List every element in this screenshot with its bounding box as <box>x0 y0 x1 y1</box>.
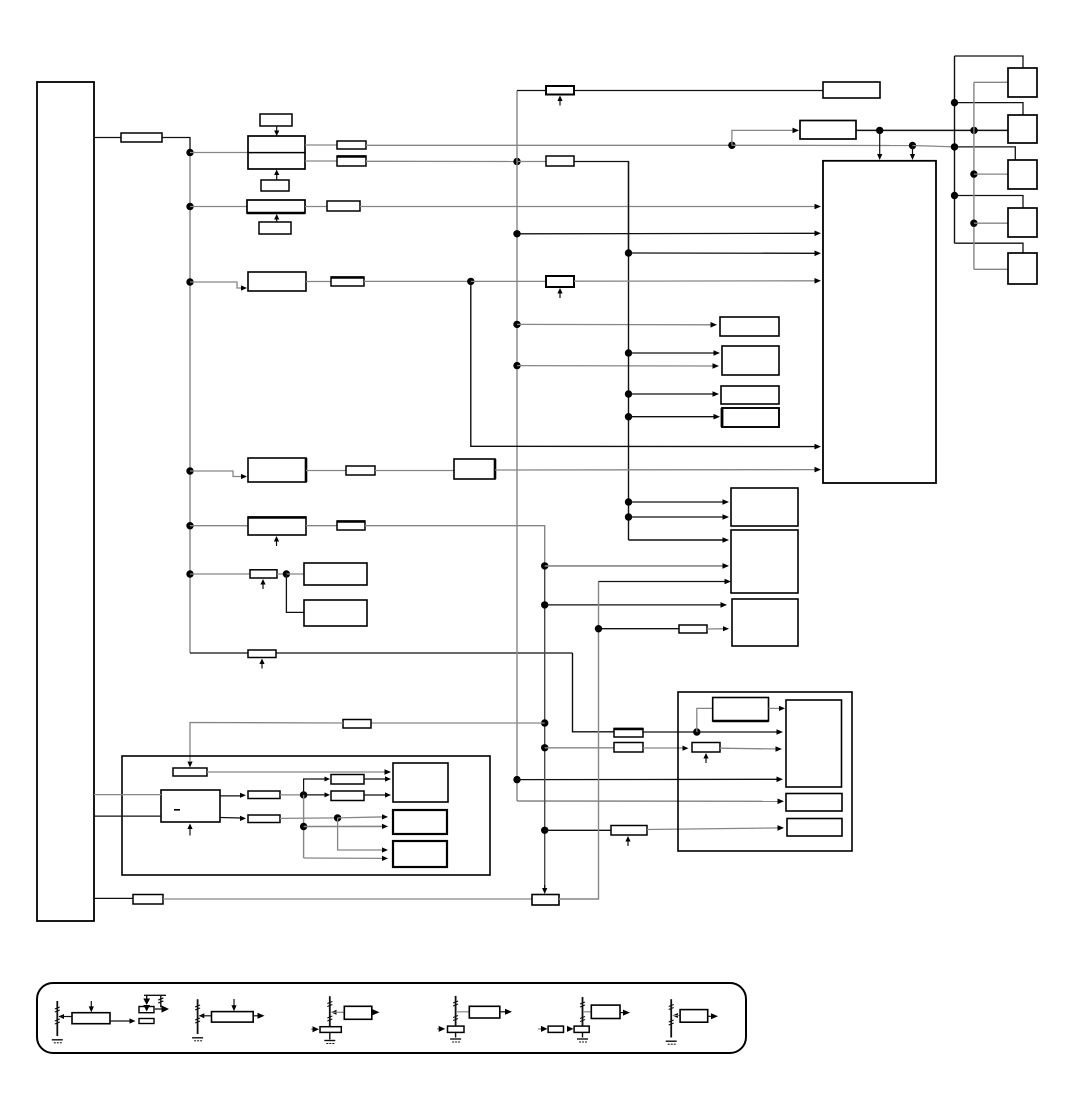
wire R8 to BB in4 <box>574 280 817 282</box>
testpoint R12 <box>703 753 708 763</box>
legend2 arrow into bus <box>199 1013 205 1018</box>
legend5 bus through rect <box>582 1032 584 1037</box>
wire v517 to box I in3 <box>517 778 779 780</box>
wire R19 to RS <box>163 898 532 900</box>
wire v517 to BB in2 <box>517 232 817 235</box>
legend5 rect2 <box>574 1026 589 1032</box>
wire R16 to n696 <box>643 731 697 733</box>
wire R11 to R12 <box>643 747 685 749</box>
junction n696 <box>693 728 700 735</box>
testpoint R6 <box>557 96 562 106</box>
legend1 out wire <box>110 1020 131 1022</box>
wire v628 to box C <box>629 393 716 395</box>
block D <box>722 408 779 427</box>
legend2 bus ticks <box>195 1005 200 1023</box>
resistor R3 <box>337 156 366 166</box>
wire B8 to BB in6 <box>495 469 817 471</box>
block U3 (wide regulator) <box>247 200 305 213</box>
block U4 <box>248 272 306 291</box>
wire U6 to R10 <box>306 525 337 527</box>
junction v545-b <box>541 601 548 608</box>
wire R18 left segment <box>190 723 343 762</box>
wire n731 to n912 <box>732 144 913 146</box>
wire V1 to block U5 (jog) <box>190 471 244 477</box>
junction V1-e <box>186 522 193 529</box>
bus V974 (grey) <box>973 82 975 269</box>
connector S5 <box>1008 253 1037 284</box>
block E <box>731 488 798 526</box>
block G <box>732 599 798 646</box>
thick right edge B8 <box>494 459 497 479</box>
wire n337 down to box Q in1 <box>338 818 384 850</box>
wire n470 down and to BB in5 <box>471 281 817 446</box>
wire n696 to box I in1 <box>697 731 779 733</box>
legend6 out arrow <box>711 1013 718 1019</box>
legend4 in arrow <box>437 1026 445 1032</box>
arrow into RN <box>325 792 331 797</box>
bus n303 down <box>303 795 305 858</box>
resistor R16 <box>614 729 643 738</box>
wire U4 to R7 <box>306 281 331 283</box>
arrow into TR2 <box>793 128 800 134</box>
legend6 bus ticks <box>669 1005 674 1026</box>
wire V517 top to R6 <box>517 90 546 92</box>
junction v517-a <box>513 158 520 165</box>
arrow into box C <box>713 391 720 397</box>
testpoint U6 <box>274 536 279 546</box>
legend1 bus ticks <box>55 1007 60 1024</box>
legend1 tee drop1 <box>143 995 150 1011</box>
block P <box>393 810 447 834</box>
thick bottom edge U3 <box>247 212 305 215</box>
thick top edge R3 <box>337 155 366 157</box>
bus V545 <box>544 566 546 890</box>
thick top edge U6 <box>248 516 306 519</box>
legend5 bus ticks <box>580 1002 585 1022</box>
block U6 <box>248 517 306 535</box>
block B8 <box>454 459 495 479</box>
junction v628-e <box>625 498 632 505</box>
wire R9 to B8 <box>375 470 454 472</box>
wire R15 run down V572 <box>573 653 615 732</box>
arrow into box T <box>778 799 785 805</box>
junction V1-c <box>186 278 193 285</box>
wire V517 to R4 <box>517 161 546 163</box>
legend1 tee bar <box>144 994 166 996</box>
junction n337 <box>334 814 341 821</box>
connector S2 <box>1008 115 1037 143</box>
legend1 small rect low <box>139 1019 154 1024</box>
legend3 out wire <box>372 1011 374 1013</box>
legend4 out arrow <box>505 1009 512 1015</box>
block U5 <box>248 458 306 482</box>
wire n337 to box P in1 <box>338 817 384 818</box>
wire n303 up to RM <box>304 779 326 795</box>
wire v954 to S3 top <box>955 147 1016 160</box>
junction v517-c <box>513 321 520 328</box>
fuse F1 <box>121 133 162 142</box>
legend1 ground <box>52 1040 63 1043</box>
legend3 low rect <box>320 1027 341 1033</box>
arrow into box P in2 <box>382 824 388 829</box>
block B11 <box>304 600 367 626</box>
arrow into BB in4 <box>815 278 822 284</box>
arrow C3 into U3 <box>274 214 279 222</box>
wire n303 corner to box Q in2 <box>304 857 384 859</box>
container CL (power stage group) <box>122 756 490 875</box>
junction V1-a <box>186 149 193 156</box>
arrow into RL <box>240 793 246 798</box>
resistor R9 <box>346 466 375 475</box>
resistor R17 <box>173 768 207 776</box>
arrow into box I in1 <box>777 729 784 735</box>
arrow into box A <box>711 322 718 328</box>
arrow into BB in1 <box>815 204 822 210</box>
legend5 box <box>591 1005 620 1018</box>
resistor RN <box>331 791 364 801</box>
block J (output filter) <box>393 763 448 802</box>
junction v545-d <box>541 744 548 751</box>
legend5 rect1 <box>548 1026 563 1032</box>
arrow into BB in6 <box>815 467 822 473</box>
legend5 wire bus to box <box>583 1011 591 1013</box>
wire RO to n337 <box>280 817 338 820</box>
wire R5 to BB <box>360 206 817 208</box>
block TR2 <box>800 121 856 140</box>
junction n470 <box>467 278 474 285</box>
legend3 arrow into bus <box>331 1010 337 1015</box>
wire v974 to S3 left <box>974 173 1008 175</box>
legend1 box <box>72 1013 110 1024</box>
wire n470 to R8 <box>471 280 546 282</box>
thick bottom edge H <box>713 720 769 723</box>
testpoint R13 <box>625 836 630 846</box>
block Q <box>393 841 447 867</box>
legend4 low rect <box>448 1026 465 1032</box>
legend2 down arrow <box>231 999 236 1011</box>
legend3 bus <box>329 996 331 1026</box>
arrow n879 into BB top <box>877 130 882 160</box>
wire U2 out2 <box>305 160 337 162</box>
legend4 bus ticks <box>453 1001 458 1021</box>
legend1 bus <box>56 1001 58 1036</box>
junction v954-c <box>951 192 958 199</box>
resistor R5 <box>327 201 360 211</box>
junction v545-a <box>541 562 548 569</box>
legend1 rect high out arrow <box>155 1005 169 1012</box>
legend3 wire bus to box <box>332 1011 345 1013</box>
wire v517 to box A <box>517 323 713 325</box>
legend2 ground <box>192 1038 203 1041</box>
arrow into box F in1 <box>723 537 730 543</box>
wire R3 to V517 <box>366 160 517 162</box>
legend2 out wire <box>253 1015 259 1017</box>
arrow into box Q in1 <box>382 847 388 852</box>
arrow into box I top-in <box>779 706 785 711</box>
wire J1 to R19 <box>94 897 133 899</box>
legend5 bus <box>582 997 584 1026</box>
wire V1 bottom corner to R15 run <box>190 652 573 654</box>
legend3 ground <box>324 1041 335 1044</box>
resistor RL <box>248 791 280 799</box>
container CR <box>678 692 852 851</box>
rail V517 main <box>516 162 518 802</box>
wire R6 to TR1 <box>574 90 823 92</box>
wire v598 to R20 <box>599 628 680 630</box>
wire RM to box J in2 <box>364 778 387 780</box>
wire V1 to block U4 (jog) <box>190 282 244 288</box>
wire v517 to box B <box>517 365 715 367</box>
wire v545 to box G in1 <box>545 604 723 606</box>
junction n974a <box>970 127 977 134</box>
thick top edge R10 <box>337 520 365 522</box>
wire v598 corner to box F in3 <box>599 581 728 583</box>
wire V1 to R14 <box>190 573 250 575</box>
wire n303b to box P in2 <box>304 825 384 827</box>
resistor R14 <box>250 570 277 578</box>
wire v954 to S4 top <box>955 196 1024 209</box>
arrow v545 into RS top <box>542 885 547 894</box>
legend6 bus <box>670 999 672 1037</box>
legend3 bus through rect <box>329 1032 331 1039</box>
arrow n912 into BB top <box>910 146 915 161</box>
wire v628 to box E in1 <box>629 501 726 503</box>
junction v954-a <box>951 99 958 106</box>
thick left edge D <box>721 408 724 427</box>
wire RL to n303 <box>280 794 304 796</box>
block I <box>786 700 842 787</box>
junction V1-d <box>186 467 193 474</box>
wire K out1 <box>220 795 242 797</box>
testpoint K <box>187 824 192 836</box>
wire R10 to V545 corner <box>365 526 545 566</box>
block H <box>713 698 769 722</box>
resistor R7 <box>331 277 364 286</box>
legend4 bus through rect <box>455 1032 457 1037</box>
wire v545 to R11 <box>545 747 614 749</box>
junction v517-e <box>513 776 520 783</box>
resistor R18 <box>343 720 371 729</box>
arrow into box E in2 <box>723 514 730 520</box>
fuse R8 <box>546 276 574 287</box>
junction V1-f <box>186 570 193 577</box>
wire v628 to BB in3 <box>629 252 818 254</box>
wire V974 top to S1 left <box>974 81 1008 83</box>
legend5 out wire <box>620 1012 624 1014</box>
legend4 out wire <box>500 1011 506 1013</box>
legend3 box <box>344 1006 372 1019</box>
wire bus722 into container <box>371 722 545 724</box>
rail V517 bottom corner to box T <box>517 800 780 802</box>
arrow into R12 <box>683 746 689 751</box>
junction n731 <box>728 142 735 149</box>
testpoint R8 <box>557 288 562 298</box>
wire R2 to junction n731 <box>366 144 732 146</box>
legend4 bus <box>455 996 457 1026</box>
wire RS up V598 <box>559 582 599 900</box>
wire R4 to V628 corner <box>574 162 629 254</box>
wire v545 to R13 <box>545 829 611 831</box>
wire F1 to bus V1 <box>162 138 190 153</box>
junction v545-e <box>541 827 548 834</box>
arrow into U4 <box>241 285 247 290</box>
fuse R6 <box>546 86 574 95</box>
legend5 mid arrow <box>567 1026 574 1032</box>
legend6 box <box>680 1010 708 1023</box>
block B <box>722 346 779 375</box>
junction v598-a <box>595 625 602 632</box>
resistor RM <box>331 775 364 785</box>
legend1 out arrow <box>130 1018 136 1023</box>
legend4 wire bus to box <box>456 1011 469 1013</box>
resistor R15 <box>248 650 276 658</box>
thick top edge R7 <box>331 276 364 278</box>
wire n912 to n954 <box>913 146 955 147</box>
resistor R20 <box>679 625 707 633</box>
power rail V517 top corner <box>516 91 518 162</box>
junction n303 <box>300 791 307 798</box>
junction n912 <box>909 142 916 149</box>
resistor RO <box>248 815 280 823</box>
wire n286 down to B11 <box>286 574 304 612</box>
legend5 in arrow <box>541 1026 548 1032</box>
arrow into box J in1 <box>385 769 392 775</box>
wire V1 to block U3 <box>190 206 247 208</box>
arrow down into R17 <box>187 762 192 768</box>
wire R14 to n286 <box>277 573 286 575</box>
block F <box>731 530 798 593</box>
wire H to box I top-in <box>769 707 782 709</box>
wire R17 to box J in1 <box>207 771 387 773</box>
legend2 wire bus to box <box>200 1015 212 1017</box>
arrow into box U <box>778 825 785 831</box>
legend frame <box>37 983 746 1053</box>
wire U5 to R9 <box>306 470 346 472</box>
block BB (main controller) <box>823 161 936 483</box>
arrow into box G in1 <box>721 602 728 608</box>
bus V1 (vertical distribution wire) <box>189 152 191 653</box>
arrow into RO <box>240 816 246 821</box>
thick top edge R16 <box>614 728 643 730</box>
wire v628 to box E in2 <box>629 516 726 518</box>
block C1 (above U2) <box>260 114 292 126</box>
wire J1 to K in2 <box>94 815 161 817</box>
arrow into box G in2 <box>723 626 729 631</box>
resistor R2 <box>337 141 366 149</box>
arrow into box Q in2 <box>382 856 388 861</box>
resistor R11 <box>614 743 643 753</box>
junction v628-d <box>625 413 632 420</box>
wire R20 to box G in2 <box>707 628 725 630</box>
legend1 arrow into bus <box>59 1014 65 1019</box>
wire U3 out <box>305 206 327 208</box>
wire U2 out1 <box>305 144 337 146</box>
arrow into BB in5 <box>815 444 822 450</box>
junction v628-a <box>625 249 632 256</box>
legend6 wire bus to box <box>673 1015 680 1017</box>
resistor R19 <box>133 895 163 905</box>
junction V1-b <box>186 203 193 210</box>
legend1 wire bus to box <box>59 1016 72 1018</box>
legend3 bus ticks <box>327 1002 332 1022</box>
legend6 out wire <box>708 1015 712 1017</box>
wire R13 to box U <box>647 828 780 830</box>
block K (converter) <box>161 790 220 822</box>
legend3 in arrow <box>311 1026 319 1032</box>
resistor R12 <box>692 743 720 753</box>
arrow into box P in1 <box>382 814 388 819</box>
legend6 ground <box>666 1041 677 1044</box>
wire V1 to block U6 <box>190 525 248 527</box>
junction v517-b <box>513 230 520 237</box>
junction v545-c <box>541 719 548 726</box>
resistor R10 <box>337 521 365 530</box>
wire RN to box J in3 <box>364 794 387 796</box>
wire v545 to box F in2 <box>545 565 725 567</box>
wire n286 to B10 <box>286 573 304 575</box>
legend2 out arrow <box>258 1013 265 1019</box>
arrow into box B in1 <box>714 350 721 356</box>
junction v954-b <box>951 143 958 150</box>
wire R7 to n470 <box>364 280 471 282</box>
block U <box>787 819 842 837</box>
arrow C2 into U2 <box>274 170 279 181</box>
resistor R4 <box>546 156 574 166</box>
legend4 ground <box>450 1039 461 1042</box>
wire v628 to box B <box>629 352 717 354</box>
legend3 out arrow <box>373 1009 380 1015</box>
block B10 <box>304 563 367 585</box>
arrow into box I in3 <box>777 777 784 783</box>
block C3 (below U3) <box>259 222 291 234</box>
junction n879 <box>876 127 883 134</box>
arrow into BB in3 <box>815 251 822 257</box>
wire n731 up to TR2 <box>732 130 795 145</box>
connector S4 <box>1008 208 1037 237</box>
legend2 bus <box>197 999 199 1034</box>
wire n696 up to box H <box>697 708 713 732</box>
label minus in K <box>174 809 180 811</box>
wire V1 to block U2 <box>190 152 248 154</box>
legend5 ground <box>577 1039 588 1042</box>
arrow into box F in2 <box>723 563 730 569</box>
block C <box>721 386 779 404</box>
testpoint R15 <box>259 659 264 669</box>
block A <box>720 317 779 336</box>
arrow into box D <box>714 414 721 420</box>
thick right edge U5 <box>305 458 308 482</box>
junction v628-c <box>625 390 632 397</box>
junction v974-b <box>970 170 977 177</box>
block C2 (below U2) <box>261 180 289 191</box>
wire J1 to K in1 <box>94 794 161 796</box>
wire v628 bottom corner to box F <box>629 539 726 541</box>
testpoint R14 <box>260 579 265 589</box>
wire v954 to S2 top <box>955 103 1024 115</box>
connector S3 <box>1008 160 1037 189</box>
legend1 small rect high <box>139 1007 154 1013</box>
arrow C1 into U2 <box>274 126 279 136</box>
wire K out2 <box>220 817 242 820</box>
arrow into box J in2 <box>385 776 391 781</box>
junction v517-d <box>513 362 520 369</box>
bus V954 (black) <box>954 56 956 243</box>
arrow into box F in3 <box>725 579 732 585</box>
arrow into RM <box>325 777 331 782</box>
arrow into box J in3 <box>385 792 391 797</box>
block T <box>786 794 842 812</box>
wire v974 bottom to S5 left <box>974 268 1008 270</box>
